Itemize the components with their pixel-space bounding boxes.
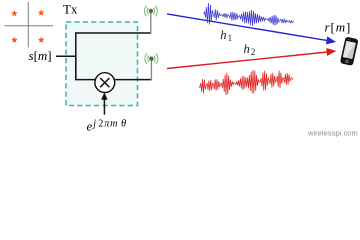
svg-text:s[m]: s[m] — [29, 48, 52, 63]
svg-text:h: h — [220, 28, 226, 42]
svg-text:Tx: Tx — [63, 2, 78, 17]
svg-text:r[m]: r[m] — [325, 20, 352, 35]
svg-text:1: 1 — [228, 33, 233, 43]
svg-text:e: e — [87, 119, 93, 134]
svg-text:wirelesspi.com: wirelesspi.com — [307, 129, 358, 138]
svg-text:2πm θ: 2πm θ — [98, 118, 127, 129]
svg-text:2: 2 — [251, 47, 256, 57]
svg-text:h: h — [244, 42, 250, 56]
